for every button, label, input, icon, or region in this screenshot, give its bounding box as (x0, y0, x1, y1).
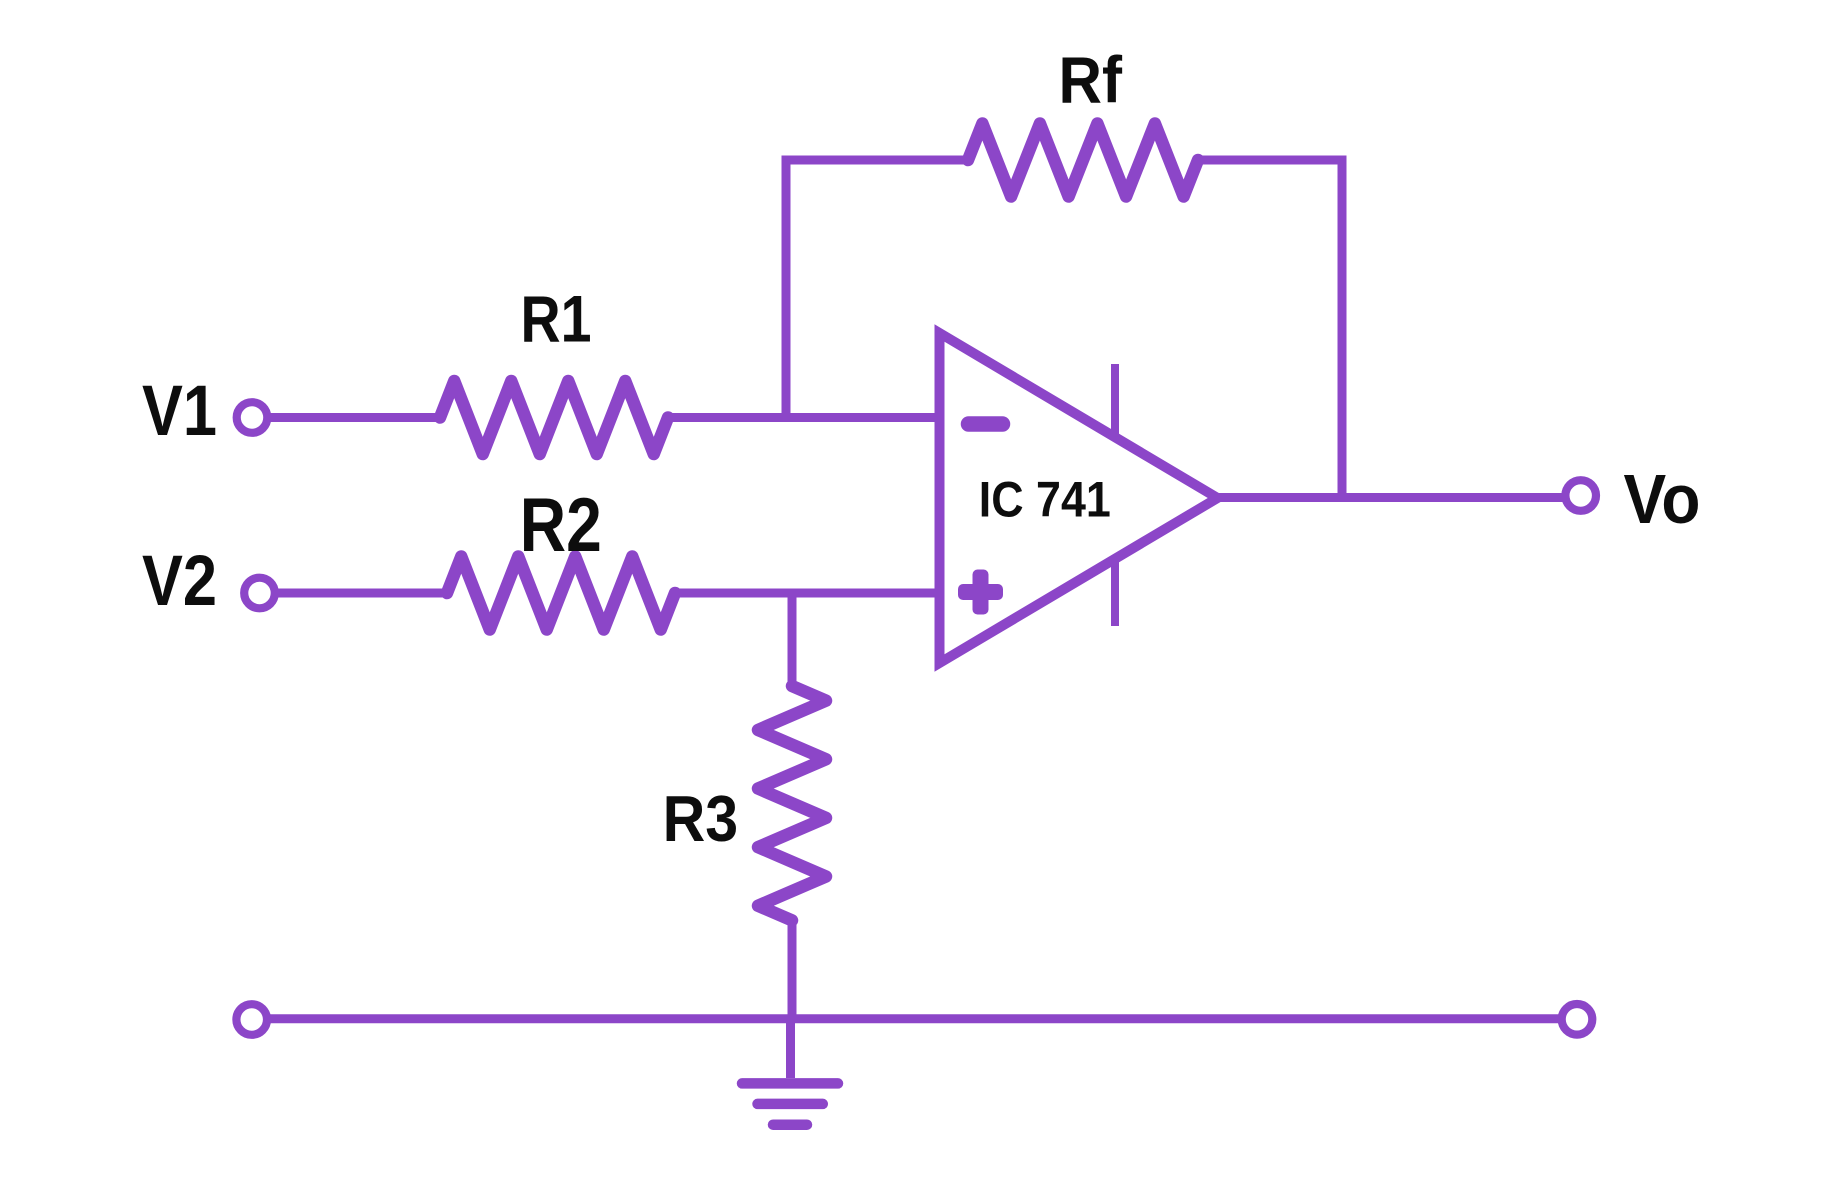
wire R1 to op-amp inverting input (664, 413, 939, 422)
ground symbol bar 2 (758, 1099, 823, 1110)
terminal bottom-left (236, 1004, 267, 1035)
svg-text:Rf: Rf (1059, 43, 1123, 117)
wire R2 to op-amp non-inverting input (671, 589, 939, 598)
wire feedback top rail right (1194, 156, 1347, 165)
op-amp power pin bottom (1111, 560, 1119, 626)
terminal V2 (244, 578, 275, 609)
op-amp U1 triangle (940, 333, 1218, 663)
wire feedback left vertical (node between R1 and inverting input) (782, 156, 791, 423)
svg-text:V1: V1 (142, 372, 217, 451)
wire V2 to R2 (275, 589, 452, 598)
terminal V1 (237, 402, 268, 433)
terminal bottom-right (1562, 1004, 1593, 1035)
wire feedback right vertical down to output node (1338, 156, 1347, 498)
terminal Vo (1565, 480, 1596, 511)
resistor Rf (968, 124, 1198, 197)
ground symbol bar 1 (742, 1078, 838, 1089)
op-amp power pin top (1111, 364, 1119, 436)
svg-text:V2: V2 (142, 542, 217, 621)
svg-text:R1: R1 (521, 282, 592, 356)
resistor R2 (447, 557, 675, 630)
op-amp inverting input minus sign (969, 416, 1003, 432)
op-amp non-inverting input plus sign (horizontal bar) (958, 584, 1003, 600)
node R3 junction / wire R3 top stub (788, 593, 797, 690)
svg-text:IC 741: IC 741 (979, 471, 1111, 528)
op-amp plus sign (vertical bar) (973, 570, 989, 615)
output wire to Vo (1212, 493, 1563, 502)
ground symbol bar 3 (773, 1119, 807, 1130)
resistor R3 (758, 686, 826, 920)
svg-text:R2: R2 (520, 483, 602, 568)
svg-text:R3: R3 (663, 782, 739, 855)
bottom rail wire (260, 1014, 1569, 1023)
svg-text:Vo: Vo (1624, 460, 1701, 538)
wire V1 to R1 (267, 413, 444, 422)
ground stem (786, 1019, 795, 1078)
wire R3 to ground rail (788, 916, 797, 1023)
wire feedback top rail left (782, 156, 973, 165)
resistor R1 (440, 381, 668, 454)
